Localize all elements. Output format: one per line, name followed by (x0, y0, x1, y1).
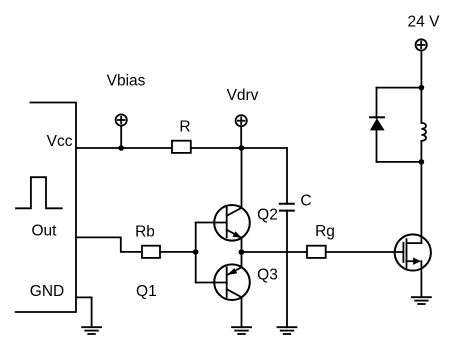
svg-text:Out: Out (32, 223, 58, 240)
node base rail junction (193, 249, 199, 255)
capacitor C (280, 204, 294, 211)
wire MOSFET source to ground (420, 261, 422, 297)
ground (C) (278, 327, 297, 334)
transistor M1 (N-MOSFET) (395, 234, 431, 270)
wire Vbias stem (120, 126, 122, 148)
wire Q2 collector (241, 148, 243, 208)
wire top node to diode branch (377, 87, 422, 89)
wire coil upper lead (420, 88, 422, 123)
wire coil bottom to MOSFET drain (420, 162, 422, 243)
svg-text:Vdrv: Vdrv (227, 87, 259, 104)
node Vbias junction (118, 145, 124, 151)
wire R to Vdrv node (191, 147, 287, 149)
terminal Vdrv (+) (236, 115, 247, 126)
inductor L1 (relay coil) (421, 123, 426, 141)
wire C bottom to ground (286, 211, 288, 328)
terminal Vbias (+) (116, 114, 127, 125)
wire rail corner down to C (286, 148, 288, 204)
svg-text:Q3: Q3 (257, 267, 278, 284)
resistor Rb (142, 246, 160, 258)
node coil bottom junction (419, 159, 425, 165)
terminal 24V (+) (416, 39, 427, 50)
diode D1 (flyback) (370, 117, 385, 130)
wire Rb to base rail (160, 251, 196, 253)
wire diode branch lower (376, 130, 378, 162)
svg-text:Rg: Rg (315, 223, 335, 240)
wire base rail vertical (195, 223, 197, 283)
wire diode bottom to coil bottom node (377, 161, 422, 163)
wire Vcc rail (76, 147, 172, 149)
wire 24V stem to top node (420, 51, 422, 88)
wire Vdrv stem (240, 126, 242, 148)
svg-text:Q1: Q1 (136, 283, 157, 300)
ground (Q3 collector) (232, 327, 251, 334)
svg-text:GND: GND (30, 283, 64, 300)
wire Q3 collector to ground (241, 297, 243, 327)
wire output node to Rg (242, 251, 308, 253)
svg-text:24 V: 24 V (408, 13, 441, 30)
ground (IC GND) (82, 327, 101, 334)
transistor Q3 (PNP) (214, 264, 250, 300)
wire output node to Q3 emitter (241, 252, 243, 267)
svg-text:Rb: Rb (135, 223, 155, 240)
wire Rg to gate (326, 251, 404, 253)
wire diode branch upper (376, 88, 378, 118)
resistor R (172, 141, 191, 153)
IC block U1 outline (16, 103, 76, 313)
node coil top junction (419, 85, 425, 91)
resistor Rg (307, 246, 326, 258)
svg-text:C: C (300, 192, 311, 209)
svg-text:R: R (179, 118, 190, 135)
ground (MOSFET source) (412, 297, 431, 304)
wire Q2 base lead (196, 222, 227, 224)
wire coil lower lead (420, 141, 422, 162)
wire Q3 base lead (196, 282, 227, 284)
transistor Q2 (NPN) (214, 205, 250, 241)
wire Q2 emitter to output node (241, 238, 243, 252)
wire Out pin to Rb (76, 237, 142, 252)
wire GND pin to ground (76, 297, 92, 327)
node output junction (239, 249, 245, 255)
svg-text:Q2: Q2 (257, 207, 278, 224)
svg-text:Vbias: Vbias (107, 73, 146, 90)
pulse waveform symbol (16, 177, 62, 208)
svg-text:Vcc: Vcc (47, 133, 73, 150)
node Vdrv junction (239, 145, 245, 151)
